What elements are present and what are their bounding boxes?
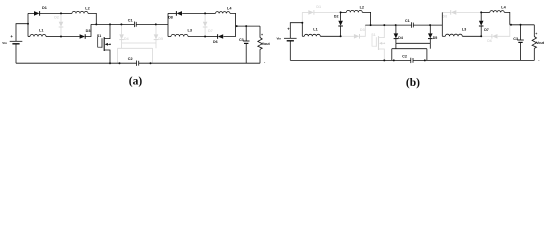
svg-text:+: + xyxy=(261,33,263,37)
svg-text:D1: D1 xyxy=(42,6,47,10)
svg-text:S1: S1 xyxy=(371,33,375,37)
svg-text:D2: D2 xyxy=(54,16,59,20)
svg-text:L3: L3 xyxy=(188,29,192,33)
svg-text:C1: C1 xyxy=(405,19,410,23)
svg-text:D4: D4 xyxy=(124,37,129,41)
svg-text:L1: L1 xyxy=(313,28,317,32)
svg-text:C1: C1 xyxy=(128,19,133,23)
svg-text:D4: D4 xyxy=(398,36,403,40)
svg-text:Vout: Vout xyxy=(536,41,545,45)
svg-text:D7: D7 xyxy=(208,29,213,33)
svg-text:(a): (a) xyxy=(129,75,143,87)
svg-text:D5: D5 xyxy=(433,36,438,40)
svg-text:D7: D7 xyxy=(484,28,489,32)
svg-text:+: + xyxy=(535,32,537,36)
svg-text:C2: C2 xyxy=(402,54,407,58)
svg-text:L2: L2 xyxy=(85,7,89,11)
svg-text:D6: D6 xyxy=(487,39,492,43)
svg-text:D3: D3 xyxy=(86,29,91,33)
svg-text:(b): (b) xyxy=(406,77,420,89)
svg-text:D5: D5 xyxy=(158,37,163,41)
svg-text:S1: S1 xyxy=(97,34,101,38)
svg-text:Vout: Vout xyxy=(262,42,271,46)
svg-text:D8: D8 xyxy=(168,15,173,19)
svg-text:C2: C2 xyxy=(128,57,133,61)
svg-text:L2: L2 xyxy=(360,6,364,10)
svg-text:D1: D1 xyxy=(316,5,321,9)
svg-text:D2: D2 xyxy=(334,15,339,19)
svg-text:D6: D6 xyxy=(213,40,218,44)
svg-text:L3: L3 xyxy=(462,28,466,32)
svg-text:C3: C3 xyxy=(239,38,244,42)
svg-text:D8: D8 xyxy=(443,14,448,18)
svg-text:L1: L1 xyxy=(39,29,43,33)
svg-text:D3: D3 xyxy=(360,28,365,32)
svg-text:Vin: Vin xyxy=(2,41,7,45)
svg-text:C3: C3 xyxy=(513,37,518,41)
svg-text:Vin: Vin xyxy=(277,36,282,40)
